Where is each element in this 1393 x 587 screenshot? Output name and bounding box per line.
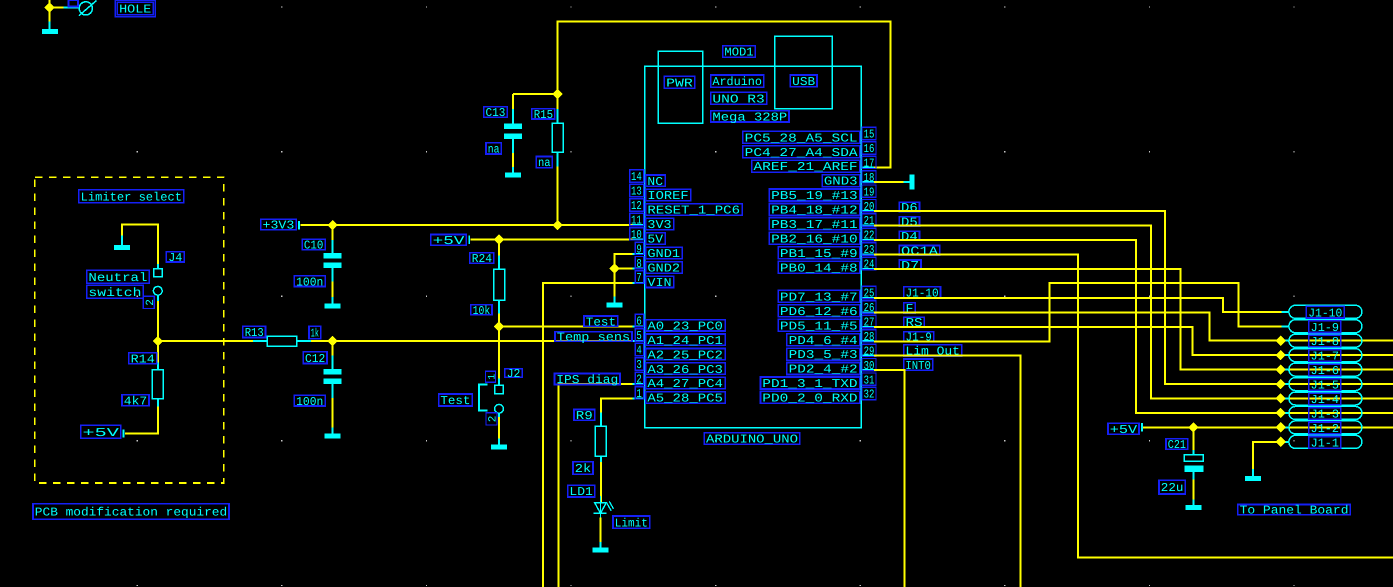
svg-text:A1_24_PC1: A1_24_PC1 [647,334,723,348]
svg-text:J1-9: J1-9 [906,331,932,345]
wire node to R15 [557,94,559,109]
pin 25 PD7_13_#7 of MOD1 [778,286,876,304]
svg-text:IPS diag: IPS diag [556,373,618,387]
wire +3V3 rail [300,224,632,226]
label Lim_Out net [904,345,962,359]
junction C12 node [327,336,337,346]
label D7 net [899,259,921,273]
wire R14 node to R13 [158,340,253,342]
svg-text:PB2_16_#10: PB2_16_#10 [771,232,858,246]
connector sheet pin J1-5 [1282,378,1362,393]
svg-text:28: 28 [864,330,875,344]
pin 3 A3_26_PC3 of MOD1 [635,358,725,377]
power +5V right [1108,423,1143,437]
pin number 2 of J4 [143,296,157,308]
label J4 [166,251,184,265]
svg-text:PD7_13_#7: PD7_13_#7 [780,290,858,304]
svg-text:A5_28_PC5: A5_28_PC5 [647,392,723,406]
label PCB modification required [33,504,229,520]
pin 16 PC4_27_A4_SDA of MOD1 [743,142,876,160]
svg-text:32: 32 [864,388,875,402]
wire D5 net to J1-4 [874,226,1393,399]
connector sheet pin J1-9 [1282,320,1362,335]
svg-text:A2_25_PC2: A2_25_PC2 [647,348,723,362]
junction J1-6 node [1276,364,1286,374]
junction C10 node [327,220,337,230]
label R13 [243,326,266,340]
svg-text:10k: 10k [473,304,491,318]
ground GND3 side-mounted [904,175,915,190]
capacitor C10 [324,240,342,282]
svg-text:PD2_4_#2: PD2_4_#2 [789,363,858,377]
label F net [904,302,916,316]
label Test of J2 [439,385,488,411]
svg-text:PCB modification required: PCB modification required [35,506,227,520]
label R15 [532,108,555,122]
svg-text:GND1: GND1 [647,247,680,261]
label IPS diag net [555,373,621,387]
pin 5 A1_24_PC1 of MOD1 [633,329,726,348]
wire D4 net to J1-3 [874,240,1393,413]
svg-text:PWR: PWR [666,76,693,90]
wire C21 top [1192,427,1194,450]
wire J4 pin2 to junction [157,301,159,341]
svg-text:PD1_3_1_TXD: PD1_3_1_TXD [762,377,857,391]
svg-text:16: 16 [864,142,875,156]
label RS net [904,316,925,330]
pin 27 PD5_11_#5 of MOD1 [778,315,876,333]
dashed region box Limiter select [35,177,224,483]
connector sheet pin J1-8 [1282,334,1362,349]
svg-text:MOD1: MOD1 [724,46,753,60]
svg-text:100n: 100n [296,395,323,409]
power +5V left [81,425,125,440]
pin number 2 of J2 [486,413,500,425]
svg-text:R13: R13 [245,326,264,340]
pin 26 PD6_12_#6 of MOD1 [778,301,876,319]
svg-text:J2: J2 [507,367,521,381]
junction R24 top node [494,234,504,244]
svg-text:15: 15 [864,128,875,142]
svg-text:20: 20 [864,200,875,214]
svg-text:VIN: VIN [647,276,671,290]
svg-text:D6: D6 [901,201,918,215]
svg-text:A3_26_PC3: A3_26_PC3 [647,363,723,377]
wire +5V rail to pin10 [471,239,633,241]
svg-text:PC4_27_A4_SDA: PC4_27_A4_SDA [745,146,859,160]
label R24 [470,252,494,266]
pin 4 A2_25_PC2 of MOD1 [635,343,725,362]
junction HOLE net [44,2,54,12]
svg-text:Limit: Limit [615,516,648,530]
label HOLE [115,0,155,17]
svg-text:D7: D7 [901,259,919,273]
label C10 [302,239,325,253]
svg-text:J1-6: J1-6 [1311,364,1339,378]
svg-text:29: 29 [864,344,875,358]
ground GND1/GND2 [607,297,623,308]
pin number 1 of J2 [486,371,499,382]
wire node to C13 [513,93,558,95]
capacitor C21 polarized [1184,450,1203,480]
value 4k7 of R14 [122,394,149,408]
wire C10 to ground [332,282,334,298]
capacitor C12 [324,356,342,399]
pin 21 PB3_17_#11 of MOD1 [769,214,876,232]
svg-text:C10: C10 [304,239,323,253]
connector sheet pin J1-2 [1282,421,1362,436]
svg-text:NC: NC [647,175,663,189]
resistor R13 [253,336,311,346]
wire C21 to ground [1192,480,1194,500]
svg-text:na: na [488,143,500,157]
svg-text:AREF_21_AREF: AREF_21_AREF [754,160,858,174]
label Limit net [613,516,650,530]
svg-text:A0_23_PC0: A0_23_PC0 [647,319,723,333]
junction J1-7 node [1276,350,1286,360]
junction C13/R15 node [552,89,562,99]
svg-text:3: 3 [636,358,641,372]
pin 23 PB1_15_#9 of MOD1 [778,243,876,261]
svg-text:11: 11 [631,214,642,228]
svg-text:4: 4 [636,344,641,358]
label Arduino [711,75,764,89]
junction GND1/GND2 node [609,263,619,273]
connector sheet pin J1-1 [1282,435,1362,450]
label Neutral switch [87,270,150,300]
pin 29 PD3_5_#3 of MOD1 [787,344,876,362]
wire C12 top [332,341,334,355]
pin 11 3V3 of MOD1 [630,213,674,232]
resistor R14 [152,363,163,407]
wire C12 to ground [332,398,334,428]
ground J4 net [114,236,130,251]
svg-text:R24: R24 [472,252,492,266]
svg-text:J1-3: J1-3 [1311,408,1339,422]
svg-text:J1-2: J1-2 [1311,422,1339,436]
value 2k of R9 [573,462,593,476]
wire R24 to Test node [498,314,500,327]
power +3V3 [261,219,300,233]
label OC1A net [899,244,940,258]
svg-text:J1-5: J1-5 [1311,379,1339,393]
svg-text:2: 2 [488,416,500,423]
wire HOLE net to hole pin [50,7,64,9]
svg-text:6: 6 [636,315,641,329]
svg-text:PB4_18_#12: PB4_18_#12 [771,204,858,218]
svg-text:17: 17 [864,156,875,170]
svg-text:J4: J4 [168,251,182,265]
pin 19 PB5_19_#13 of MOD1 [769,185,876,203]
hole H1 symbol [64,1,97,16]
svg-text:19: 19 [864,185,875,199]
svg-text:J1-9: J1-9 [1311,321,1339,335]
wire GND3 to ground [874,181,904,183]
svg-text:4k7: 4k7 [124,394,147,408]
wire OC1A net to bottom right [874,254,1393,557]
wire LD1 to ground [600,518,602,543]
svg-text:1: 1 [636,387,641,401]
wire J2 to ground [498,417,500,439]
svg-text:1: 1 [487,374,498,380]
pin 6 A0_23_PC0 of MOD1 [633,314,726,333]
ground LD1 [593,542,609,553]
svg-text:R14: R14 [131,352,155,366]
svg-text:PD5_11_#5: PD5_11_#5 [780,319,858,333]
connector sheet pin J1-7 [1282,349,1362,364]
junction J1-3 node [1276,408,1286,418]
svg-text:+5V: +5V [83,426,121,440]
label J2 [505,367,522,381]
wire C13 top [512,94,514,109]
module MOD1 ARDUINO_UNO main box [645,66,862,427]
svg-text:Mega 328P: Mega 328P [712,110,787,124]
capacitor C13 [504,109,522,153]
svg-text:C13: C13 [486,106,506,120]
svg-text:J1-4: J1-4 [1311,393,1339,407]
label J1-9 net [904,331,934,345]
resistor R24 [494,256,505,314]
wire J1-1 to ground [1253,442,1281,469]
svg-text:100n: 100n [296,275,323,289]
svg-text:31: 31 [864,373,875,387]
label INT0 net [904,359,933,373]
svg-text:26: 26 [864,301,875,315]
svg-text:IOREF: IOREF [647,189,688,203]
resistor R9 [595,413,606,463]
LED LD1 [594,496,614,518]
svg-text:5: 5 [636,329,641,343]
svg-text:22u: 22u [1161,481,1184,495]
label D6 net [899,201,919,215]
svg-text:9: 9 [636,242,641,256]
junction J1-5 node [1276,379,1286,389]
ground C10 [325,297,341,308]
pin 15 PC5_28_A5_SCL of MOD1 [743,127,876,145]
svg-text:LD1: LD1 [569,485,592,499]
svg-text:30: 30 [864,359,875,373]
box USB of MOD1 [775,36,833,109]
svg-text:PB5_19_#13: PB5_19_#13 [771,189,858,203]
svg-text:+5V: +5V [433,234,466,248]
svg-text:J1-10: J1-10 [1308,306,1342,320]
svg-text:22: 22 [864,229,875,243]
wire F net to J1-8 [874,312,1393,340]
wire Lim_Out net down [874,356,1021,587]
svg-text:ARDUINO_UNO: ARDUINO_UNO [706,433,798,447]
svg-text:J1-7: J1-7 [1311,350,1339,364]
junction R14/R13 node [153,336,163,346]
connector sheet pin J1-10 [1282,305,1362,320]
svg-text:25: 25 [864,287,875,301]
label Test net [584,315,618,329]
svg-text:2k: 2k [575,462,591,476]
svg-text:1k: 1k [311,327,319,341]
svg-text:HOLE: HOLE [119,3,151,17]
power +5V mid [431,234,470,248]
resistor R15 [552,109,563,167]
svg-text:PD6_12_#6: PD6_12_#6 [780,305,858,319]
value 100n of C10 [294,275,325,289]
connector J2 [495,379,504,418]
pin 12 RESET_1_PC6 of MOD1 [630,199,742,218]
svg-text:PD3_5_#3: PD3_5_#3 [789,348,858,362]
connector sheet pin J1-4 [1282,392,1362,407]
svg-text:J1-1: J1-1 [1311,436,1339,450]
wire AREF net top loop [558,22,891,168]
label ARDUINO_UNO [704,433,800,447]
junction R15/+3V3 node [552,220,562,230]
wire D6 net to J1-5 [874,211,1393,384]
svg-text:PB3_17_#11: PB3_17_#11 [771,218,858,232]
svg-text:F: F [906,302,914,316]
label C13 [484,106,508,120]
svg-text:PC5_28_A5_SCL: PC5_28_A5_SCL [745,131,858,145]
svg-text:To Panel Board: To Panel Board [1240,504,1349,518]
pin 32 PD0_2_0_RXD of MOD1 [761,387,877,405]
ground C21 [1185,500,1201,511]
label Mega 328P [711,110,789,124]
svg-text:RESET_1_PC6: RESET_1_PC6 [647,204,740,218]
label C21 [1166,438,1188,452]
junction J1-4 node [1276,393,1286,403]
wire J4 top to ground [122,224,158,264]
wire C13 to ground [512,153,514,167]
label MOD1 [723,46,756,60]
svg-text:C21: C21 [1168,438,1186,452]
label Limiter select [79,190,184,205]
svg-text:Limiter select: Limiter select [81,190,182,204]
svg-text:8: 8 [636,257,641,271]
svg-text:Arduino: Arduino [712,75,762,89]
label To Panel Board [1238,504,1351,518]
wire R9 to LD1 [600,462,602,503]
svg-text:12: 12 [631,199,642,213]
svg-text:10: 10 [631,228,642,242]
svg-text:18: 18 [864,171,875,185]
pin 1 A5_28_PC5 of MOD1 [633,387,726,406]
svg-text:Test: Test [586,315,616,329]
wire VIN net down [543,283,632,587]
svg-text:PB0_14_#8: PB0_14_#8 [780,261,858,275]
label D5 net [899,215,919,229]
label USB [790,75,817,89]
pin 10 5V of MOD1 [630,228,665,247]
svg-text:UNO R3: UNO R3 [712,92,764,106]
svg-text:PD4_6_#4: PD4_6_#4 [789,334,858,348]
wire +5V to J1-2 and right edge [1143,426,1393,428]
svg-text:J1-8: J1-8 [1311,335,1339,349]
svg-text:Temp sens: Temp sens [557,331,630,345]
wire D7 net to J1-6 [874,269,1393,370]
svg-text:C12: C12 [305,352,325,366]
wire Temp sens net R13 to pin5 [311,340,633,342]
wire IPS diag net down [558,384,632,587]
pin 18 GND3 of MOD1 [822,171,876,189]
svg-text:27: 27 [864,316,875,330]
wire Test net to pin6 [499,325,633,327]
value 10k of R24 [471,304,492,318]
pin 30 PD2_4_#2 of MOD1 [787,359,876,377]
label PWR [664,76,694,90]
junction J1-2 node [1276,422,1286,432]
ground C13 [505,167,521,178]
junction J1-1 node [1276,437,1286,447]
svg-text:7: 7 [636,271,641,285]
svg-text:+3V3: +3V3 [263,219,295,233]
ground J2 [491,439,507,450]
wire pin28 to J1-9 [874,283,1282,341]
wire INT0 net down [874,370,905,587]
value 1k of R13 [309,326,321,341]
connector sheet pin J1-6 [1282,363,1362,378]
value na of C13 [486,143,501,157]
svg-text:R15: R15 [534,108,553,122]
svg-text:RS: RS [906,316,923,330]
svg-text:Test: Test [440,394,470,408]
ground J1-1 net [1245,469,1261,481]
junction J1-8 node [1276,336,1286,346]
wire +5V to R24 [498,240,500,256]
svg-text:OC1A: OC1A [901,244,939,258]
svg-text:3V3: 3V3 [647,218,671,232]
connector sheet pin J1-3 [1282,406,1362,421]
pin 22 PB2_16_#10 of MOD1 [769,228,876,246]
junction C21 node [1188,422,1198,432]
svg-text:D5: D5 [901,215,918,229]
pin 17 AREF_21_AREF of MOD1 [752,156,876,174]
svg-text:13: 13 [631,185,642,199]
ground hole net [42,22,58,34]
svg-text:GND3: GND3 [824,175,858,189]
connector J4 [153,264,162,301]
wire RS net to J1-7 [874,327,1393,355]
svg-text:GND2: GND2 [647,262,680,276]
label Temp sens net [555,331,632,345]
pin 2 A4_27_PC4 of MOD1 [633,372,726,391]
svg-text:24: 24 [864,258,875,272]
pin 28 PD4_6_#4 of MOD1 [787,330,876,348]
svg-text:na: na [538,156,551,170]
svg-text:2: 2 [636,373,641,387]
svg-text:23: 23 [864,243,875,257]
label R9 [574,409,595,423]
label R14 [129,352,157,366]
wire R15 to +3V3 rail [557,167,559,226]
label D4 net [899,230,919,244]
pin 9 GND1 of MOD1 [633,242,683,261]
svg-text:+5V: +5V [1110,423,1138,437]
value 22u of C21 [1159,480,1185,495]
svg-text:D4: D4 [901,230,918,244]
value 100n of C12 [294,395,325,409]
svg-text:21: 21 [864,214,875,228]
svg-text:R9: R9 [576,409,593,423]
label C12 [303,352,327,366]
wire junction to R14 [157,341,159,362]
wire GND1/GND2 to ground [615,254,633,296]
pin 14 NC of MOD1 [630,170,665,189]
svg-text:5V: 5V [647,233,663,247]
pin 7 VIN of MOD1 [633,271,674,290]
svg-text:Neutral: Neutral [88,271,147,285]
label J1-10 net [904,287,941,301]
wire HOLE net vertical from top edge [49,0,51,22]
pin 13 IOREF of MOD1 [630,184,691,203]
label UNO R3 [711,92,767,106]
svg-text:2: 2 [145,299,157,306]
pin 20 PB4_18_#12 of MOD1 [769,200,876,218]
